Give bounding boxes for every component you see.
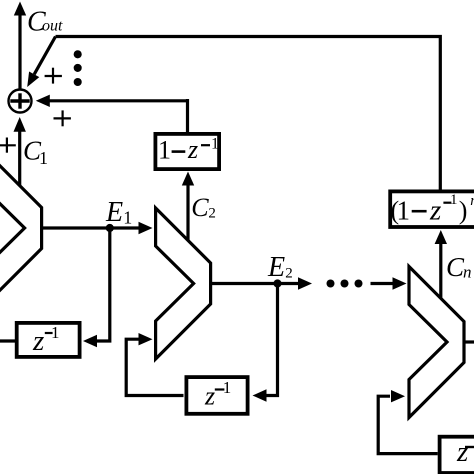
sup minus in z^-1 box stage2 [215,388,225,390]
arrowhead C1 up into summing node [14,117,26,132]
chevron accumulator stage 1 (cut off at left edge) [0,153,42,304]
chevron accumulator stage 2 [156,208,211,359]
svg-text:n: n [470,193,474,209]
minus in (1-z^-1)^n box [412,210,427,213]
arrowhead right into chevron n [393,277,407,289]
wire Cn from chevron n top to (1-z^-1)^n box [439,243,442,298]
wire E1 junction drop to z^-1 box 1 [96,228,110,341]
summing node circle with plus [9,90,32,113]
arrowhead E2 right after junction [298,277,312,289]
svg-text:z: z [187,135,198,164]
svg-text:z: z [204,382,215,411]
sup minus in (1-z^-1)^n box [443,202,451,204]
minus in 1-z^-1 box [172,150,186,153]
svg-text:z: z [429,195,441,227]
arrowhead Cn up into (1-z^-1)^n box [435,230,447,244]
wire C1 from chevron 1 top to summing node [18,131,21,187]
plus sign for horizontal input [54,117,71,119]
arrowhead diagonal into summing node [27,72,39,88]
wire C_out vertical from summing node up [18,14,21,89]
wire z^-1 box n feedback to chevron n lower input [378,396,438,453]
plus sign for diagonal input [0,68,71,153]
svg-text:E: E [267,252,285,283]
arrowhead C2 up into 1-z^-1 box [182,172,194,186]
minus strokes for box values [45,145,474,447]
wire E2 from chevron 2 output [211,282,299,285]
arrowhead feedback right into chevron 2 [139,333,153,345]
svg-text:1: 1 [397,196,411,226]
vertical ellipsis dots above summing node [74,50,82,58]
wire from z^-1 box 1 left to edge [0,339,16,342]
svg-text:1: 1 [51,323,60,342]
wire riser from 1-z^-1 box top [186,99,189,132]
svg-text:z: z [456,436,468,468]
chevron accumulator stage n [409,267,464,418]
svg-text:1: 1 [450,192,458,208]
arrowhead left into summing node [36,95,50,107]
box (1-z^-1)^n stage n noise shaping [390,191,474,227]
sup minus in 1-z^-1 box [201,144,210,146]
wire horizontal into summing node from 1-z^-1 box riser [48,99,188,102]
svg-text:C: C [191,193,209,222]
svg-text:z: z [32,325,44,357]
arrowhead left into z^-1 box 2 [253,389,267,401]
arrowhead E1 right into chevron 2 [139,222,153,234]
sup minus in z^-1 box stage n [465,446,474,448]
svg-text:): ) [459,196,468,225]
svg-text:1: 1 [123,208,132,228]
arrowhead C_out up [14,2,26,16]
box z^-1 stage 1 feedback [17,323,80,357]
wire z^-1 box 2 feedback to chevron 2 lower input [126,339,183,395]
svg-text:n: n [463,263,472,282]
wire E2 junction drop to z^-1 box 2 [266,284,278,396]
arrowhead left into z^-1 box 1 [83,335,97,347]
svg-text:1: 1 [158,136,171,165]
ellipsis dots between stage 2 and stage n [327,280,335,288]
box z^-1 stage n feedback (cut off at corner) [440,437,474,473]
plus sign for C1 input [0,144,16,146]
box 1-z^-1 stage 2 noise shaping [155,134,219,169]
box z^-1 stage 2 feedback [186,377,247,414]
wire top horizontal feedback line and drop to (1-z^-1)^n box [56,37,441,191]
sup minus in z^-1 box 1 [45,332,53,334]
svg-text:1: 1 [223,378,232,397]
wire segment before chevron n [371,282,394,285]
svg-text:2: 2 [208,206,216,222]
svg-text:1: 1 [39,148,48,168]
junction node E1 [106,224,114,232]
svg-text:E: E [105,197,123,228]
wire chevron n output to right edge [464,340,474,343]
svg-text:out: out [42,18,63,35]
svg-text:2: 2 [285,266,293,282]
wire E1 from chevron 1 output to chevron 2 [42,226,141,229]
wire diagonal from top feedback line into summing node [34,37,55,75]
svg-text:1: 1 [211,136,219,153]
junction node E2 [273,279,281,287]
arrowhead feedback right into chevron n [391,390,405,402]
wire C2 from chevron 2 top to 1-z^-1 box [186,185,189,241]
